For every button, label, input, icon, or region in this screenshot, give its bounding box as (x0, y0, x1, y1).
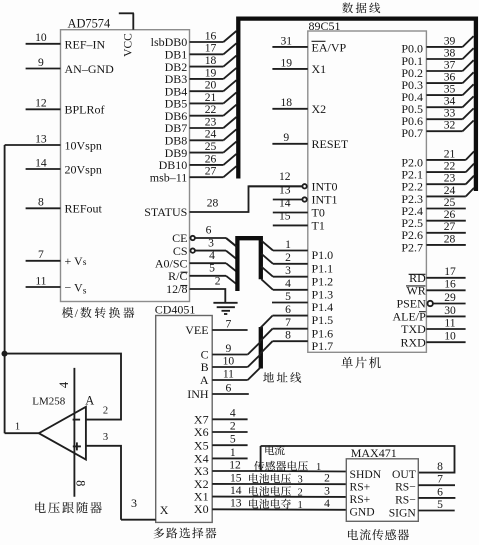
CD4051 pin 10 B wire (201, 354, 261, 374)
svg-text:X0: X0 (194, 502, 209, 516)
AD7574 pin 8 REFout wire (26, 196, 61, 209)
svg-text:3: 3 (208, 236, 214, 249)
89C51 pin 3 P1.2 wire (273, 264, 333, 288)
AD7574 pin 19 DB3 wire (165, 66, 237, 86)
svg-text:6: 6 (437, 485, 443, 498)
wire P1.3 diag (261, 279, 273, 290)
svg-text:3: 3 (103, 432, 108, 443)
svg-text:10: 10 (35, 31, 47, 44)
AD7574 pin 11 -Vs wire (26, 274, 61, 287)
ground (213, 303, 237, 314)
net label 电池电压3 (249, 472, 330, 486)
svg-text:2: 2 (285, 251, 291, 264)
junction node (2, 351, 8, 357)
svg-text:RS+: RS+ (350, 481, 371, 494)
svg-text:3: 3 (285, 264, 291, 277)
AD7574 caption 模/数转换器 (62, 306, 135, 320)
svg-text:12/8: 12/8 (166, 282, 187, 296)
89C51 pin 26 P2.5 wire (401, 208, 465, 230)
svg-text:26: 26 (444, 208, 456, 221)
svg-text:7: 7 (437, 473, 443, 486)
LM258 pin 3 non-inverting wire to X (86, 432, 121, 520)
svg-text:27: 27 (444, 220, 456, 233)
svg-text:4: 4 (285, 277, 291, 290)
CD4051 pin 2 X6 wire (194, 419, 248, 439)
svg-text:VEE: VEE (185, 323, 208, 337)
svg-text:AD7574: AD7574 (68, 16, 111, 30)
svg-text:24: 24 (205, 128, 217, 141)
89C51 pin 24 P2.3 wire (401, 184, 474, 206)
svg-text:3: 3 (298, 475, 303, 486)
89C51 pin 23 P2.2 wire (401, 172, 474, 194)
AD7574 pin 16 lsbDB0 wire (151, 29, 237, 49)
89C51 pin 2 P1.1 wire (273, 251, 333, 275)
address bus 地址线 (thick) (259, 327, 263, 369)
89C51 pin 4 P1.3 wire (273, 277, 333, 301)
svg-text:27: 27 (205, 165, 217, 178)
svg-text:35: 35 (444, 83, 456, 96)
svg-text:INT0: INT0 (312, 180, 338, 194)
svg-text:msb–11: msb–11 (150, 170, 188, 184)
89C51 pin 37 P0.2 wire (401, 58, 473, 79)
svg-text:9: 9 (38, 56, 44, 69)
CD4051 pin 6 INH wire (187, 381, 249, 401)
svg-text:− Vs: − Vs (65, 280, 87, 296)
svg-text:16: 16 (444, 278, 456, 291)
svg-text:12: 12 (229, 458, 241, 471)
svg-text:X2: X2 (312, 102, 327, 116)
AD7574 pin 12 BPLRof wire (26, 97, 61, 110)
AD7574 pin 13 10Vspn wire to left rail (5, 132, 61, 145)
svg-text:R/C: R/C (168, 269, 187, 283)
svg-text:P0.7: P0.7 (401, 126, 423, 140)
svg-text:11: 11 (223, 367, 234, 380)
svg-text:20: 20 (205, 79, 217, 92)
svg-text:4: 4 (57, 381, 71, 388)
svg-text:INT1: INT1 (312, 193, 338, 207)
AD7574 pin 3 CS wire (173, 236, 237, 259)
89C51 pin 27 P2.6 wire (401, 220, 465, 242)
svg-text:11: 11 (444, 316, 455, 329)
svg-text:P1.1: P1.1 (312, 261, 334, 275)
AD7574 pin 4 A0/SC wire (155, 249, 237, 272)
89C51 pin 15 T1 wire (273, 209, 308, 225)
89C51 pin 7 P1.6 wire (260, 316, 333, 341)
svg-text:4: 4 (230, 407, 236, 420)
svg-text:P1.0: P1.0 (312, 248, 334, 262)
svg-text:5: 5 (230, 433, 236, 446)
svg-text:21: 21 (444, 147, 456, 160)
svg-text:TXD: TXD (401, 322, 426, 336)
svg-text:1: 1 (230, 446, 236, 459)
AD7574 pin 22 DB6 wire (165, 103, 237, 123)
svg-text:17: 17 (444, 265, 456, 278)
svg-text:RXD: RXD (400, 335, 426, 349)
svg-text:3: 3 (131, 496, 137, 510)
svg-text:8: 8 (285, 329, 291, 342)
89C51 pin 10 RXD wire (400, 330, 465, 350)
VCC supply symbol (119, 13, 135, 57)
89C51 pin 12 INT0 wire (from STATUS) (249, 170, 307, 189)
svg-text:13: 13 (279, 183, 291, 196)
svg-text:SHDN: SHDN (350, 468, 382, 481)
MAX471 pin 5 SIGN wire (418, 498, 454, 511)
CD4051 pin 1 X4 wire (194, 446, 248, 466)
MAX471 pin 7 RS- wire (418, 473, 455, 486)
svg-text:13: 13 (35, 132, 47, 145)
svg-text:15: 15 (279, 209, 291, 222)
net label 地址线 (263, 372, 301, 383)
svg-text:11: 11 (35, 274, 46, 287)
AD7574 pin 23 DB7 wire (165, 115, 237, 135)
svg-text:14: 14 (279, 196, 291, 209)
AD7574 pin 26 DB10 wire (159, 152, 237, 172)
CD4051 pin 13 X0 wire to GND (194, 497, 346, 516)
89C51 pin 16 WR wire (406, 278, 466, 298)
svg-text:18: 18 (205, 54, 217, 67)
svg-text:RS−: RS− (395, 481, 416, 494)
svg-text:BPLRof: BPLRof (65, 103, 105, 117)
svg-text:10Vspn: 10Vspn (65, 138, 102, 152)
MAX471 pin 8 OUT wire (437, 460, 443, 473)
svg-text:28: 28 (444, 232, 456, 245)
89C51 pin 5 P1.4 wire (272, 290, 333, 314)
AD7574 pin 5 R/C wire (168, 261, 236, 284)
svg-text:13: 13 (230, 497, 242, 510)
svg-text:28: 28 (207, 196, 219, 209)
svg-text:14: 14 (35, 156, 47, 169)
89C51 pin 21 P2.0 wire (401, 147, 474, 169)
LM258 caption 电压跟随器 (35, 502, 102, 514)
svg-text:20Vspn: 20Vspn (65, 162, 102, 176)
svg-text:12: 12 (279, 170, 291, 183)
svg-text:15: 15 (230, 471, 242, 484)
CD4051 pin 15 X2 wire to SHDN (194, 471, 346, 491)
svg-text:2: 2 (298, 487, 303, 498)
AD7574 pin 24 DB8 wire (165, 128, 237, 148)
AD7574 pin 2 12/8 wire to ground (166, 275, 225, 303)
svg-text:37: 37 (444, 58, 456, 71)
89C51 pin 18 X2 wire (272, 96, 307, 109)
wire P1.0 diag (261, 241, 273, 251)
89C51 pin 14 T0 wire (273, 196, 308, 212)
multiplexer U3 CD4051 body (156, 316, 213, 523)
svg-text:+ Vs: + Vs (65, 254, 87, 268)
svg-text:22: 22 (205, 103, 217, 116)
svg-text:8: 8 (437, 460, 443, 473)
svg-text:4: 4 (209, 249, 215, 262)
svg-text:7: 7 (38, 248, 44, 261)
89C51 pin 36 P0.3 wire (401, 71, 473, 92)
89C51 pin 8 P1.7 wire (260, 329, 333, 354)
svg-text:6: 6 (285, 303, 291, 316)
svg-text:INH: INH (187, 387, 209, 401)
MAX471 OUT loop wire (261, 446, 455, 473)
svg-text:23: 23 (444, 172, 456, 185)
svg-text:6: 6 (206, 224, 212, 237)
CD4051 pin 5 X5 wire (194, 433, 248, 453)
svg-text:P2.7: P2.7 (401, 240, 423, 254)
svg-text:VCC: VCC (123, 33, 135, 57)
svg-text:EA/VP: EA/VP (312, 40, 347, 54)
data bus 数据线 (thick) (238, 19, 476, 191)
89C51 pin 39 P0.0 wire (401, 34, 473, 55)
AD7574 pin 7 +Vs wire (26, 248, 61, 261)
svg-text:19: 19 (205, 66, 217, 79)
svg-text:89C51: 89C51 (309, 19, 341, 33)
svg-text:4: 4 (324, 497, 330, 510)
svg-text:25: 25 (444, 196, 456, 209)
CD4051 caption 多路选择器 (154, 527, 217, 538)
svg-text:CD4051: CD4051 (155, 303, 196, 317)
svg-text:6: 6 (226, 381, 232, 394)
svg-text:3: 3 (324, 484, 330, 497)
svg-text:18: 18 (281, 96, 293, 109)
CD4051 pin 12 X3 wire to OUT loop (194, 446, 346, 478)
89C51 pin 38 P0.1 wire (401, 46, 473, 67)
svg-text:21: 21 (205, 91, 217, 104)
svg-text:P1.5: P1.5 (312, 313, 334, 327)
svg-text:T0: T0 (312, 206, 325, 220)
svg-text:23: 23 (205, 115, 217, 128)
svg-text:2: 2 (215, 275, 221, 288)
89C51 pin 35 P0.4 wire (401, 83, 473, 104)
svg-text:X6: X6 (194, 425, 209, 439)
svg-text:29: 29 (444, 291, 456, 304)
svg-text:B: B (201, 360, 209, 374)
net label 电流传感器电压1 (254, 445, 321, 473)
wire P1.2 diag (261, 267, 273, 277)
op-amp U4 LM258 (32, 394, 94, 460)
CD4051 pin 7 VEE wire (185, 317, 247, 337)
89C51 pin 1 P1.0 wire (273, 238, 333, 262)
svg-text:32: 32 (444, 119, 456, 132)
MAX471 pin 6 RS- wire (418, 485, 455, 498)
AD7574 pin 21 DB5 wire (165, 91, 237, 111)
svg-text:24: 24 (444, 184, 456, 197)
89C51 pin 22 P2.1 wire (401, 160, 474, 182)
svg-text:1: 1 (285, 238, 291, 251)
89C51 pin 19 X1 wire (272, 56, 307, 69)
89C51 pin 11 TXD wire (401, 316, 465, 336)
svg-text:REF–IN: REF–IN (65, 37, 106, 51)
svg-text:25: 25 (205, 140, 217, 153)
89C51 pin 17 RD wire (409, 265, 466, 285)
svg-text:2: 2 (230, 419, 236, 432)
wire CE diag (226, 238, 237, 247)
svg-text:1: 1 (316, 462, 321, 473)
svg-text:RS−: RS− (395, 493, 416, 506)
89C51 caption 单片机 (341, 357, 380, 368)
svg-text:SIGN: SIGN (389, 507, 417, 520)
svg-text:A: A (85, 394, 94, 408)
svg-text:OUT: OUT (392, 468, 416, 481)
svg-text:2: 2 (103, 406, 108, 417)
AD7574 pin 27 msb-11 wire (150, 165, 237, 185)
AD7574 pin 28 STATUS wire to INT0 (144, 186, 302, 219)
CD4051 pin 11 A wire (200, 367, 260, 387)
89C51 pin 32 P0.7 wire (401, 119, 473, 140)
svg-text:9: 9 (283, 131, 289, 144)
89C51 pin 6 P1.5 wire (260, 303, 333, 328)
control bus (thick) (237, 238, 260, 291)
wire P1.1 diag (261, 254, 273, 264)
svg-text:T1: T1 (312, 219, 325, 233)
svg-text:7: 7 (226, 317, 232, 330)
svg-text:GND: GND (350, 505, 375, 518)
svg-text:STATUS: STATUS (144, 205, 187, 219)
svg-text:X1: X1 (312, 62, 327, 76)
svg-text:/: / (75, 306, 79, 320)
CD4051 pin 4 X7 wire (194, 407, 248, 427)
svg-text:A: A (200, 373, 209, 387)
89C51 pin 29 PSEN wire (396, 291, 465, 311)
CD4051 pin 9 C wire (201, 342, 261, 362)
89C51 pin 28 P2.7 wire (401, 232, 465, 254)
svg-text:17: 17 (205, 42, 217, 55)
89C51 pin 30 ALE/P wire (392, 304, 465, 324)
svg-text:19: 19 (281, 56, 293, 69)
net label 电池电夺1 (249, 497, 330, 511)
svg-text:RESET: RESET (312, 137, 349, 151)
left rail wire from 10Vspn to output (4, 145, 6, 433)
feedback wire to inverting input (5, 354, 121, 420)
svg-text:MAX471: MAX471 (351, 446, 397, 460)
svg-text:PSEN: PSEN (396, 297, 426, 311)
CD4051 pin 3 X wire from op-amp (121, 496, 156, 520)
current sensor U5 MAX471 body (346, 459, 418, 522)
LM258 power pins 4/8 (57, 368, 88, 497)
89C51 pin 25 P2.4 wire (401, 196, 465, 218)
AD7574 pin 14 20Vspn wire (26, 156, 61, 169)
MCU U2 89C51 body (308, 31, 427, 352)
89C51 pin 9 RESET wire (272, 131, 307, 144)
svg-text:1: 1 (15, 422, 20, 433)
AD7574 pin 6 CE wire (172, 224, 236, 247)
svg-text:X: X (160, 503, 169, 517)
svg-text:5: 5 (437, 498, 443, 511)
svg-text:P1.4: P1.4 (312, 300, 334, 314)
AD7574 pin 25 DB9 wire (165, 140, 237, 160)
AD7574 pin 18 DB2 wire (165, 54, 237, 74)
svg-text:2: 2 (324, 472, 330, 485)
svg-text:9: 9 (226, 342, 232, 355)
svg-text:31: 31 (281, 34, 293, 47)
net label 电池电压2 (249, 484, 330, 498)
svg-text:X5: X5 (194, 438, 209, 452)
svg-text:P1.7: P1.7 (312, 339, 334, 353)
svg-text:LM258: LM258 (32, 396, 66, 408)
svg-text:REFout: REFout (65, 202, 103, 216)
svg-text:8: 8 (74, 480, 88, 486)
svg-text:14: 14 (230, 484, 242, 497)
svg-text:5: 5 (285, 290, 291, 303)
svg-text:39: 39 (444, 34, 456, 47)
A/D converter U1 AD7574 body (61, 30, 190, 302)
svg-text:7: 7 (285, 316, 291, 329)
svg-text:33: 33 (444, 107, 456, 120)
svg-text:RS+: RS+ (350, 493, 371, 506)
89C51 pin 34 P0.5 wire (401, 95, 473, 116)
svg-text:AN–GND: AN–GND (65, 62, 115, 76)
svg-text:10: 10 (223, 354, 235, 367)
net label 数据线 (342, 3, 380, 14)
AD7574 pin 17 DB1 wire (165, 42, 237, 62)
svg-text:16: 16 (205, 29, 217, 42)
AD7574 pin 10 REF-IN wire (26, 31, 61, 44)
89C51 pin 31 EA/VP wire (272, 34, 307, 47)
svg-text:30: 30 (444, 304, 456, 317)
svg-text:12: 12 (35, 97, 47, 110)
svg-text:1: 1 (298, 500, 303, 511)
svg-text:P1.2: P1.2 (312, 274, 334, 288)
MAX471 caption 电流传感器 (348, 529, 409, 540)
89C51 pin 13 INT1 wire (273, 183, 307, 201)
svg-text:22: 22 (444, 160, 456, 173)
89C51 pin 33 P0.6 wire (401, 107, 473, 128)
CD4051 pin 14 X1 wire to RS+ (194, 484, 346, 504)
svg-text:26: 26 (205, 152, 217, 165)
svg-text:10: 10 (444, 330, 456, 343)
LM258 pin 1 output wire (5, 422, 39, 434)
AD7574 pin 20 DB4 wire (165, 79, 237, 99)
svg-text:8: 8 (38, 196, 44, 209)
svg-text:5: 5 (209, 261, 215, 274)
AD7574 pin 9 AN-GND wire (26, 56, 61, 69)
